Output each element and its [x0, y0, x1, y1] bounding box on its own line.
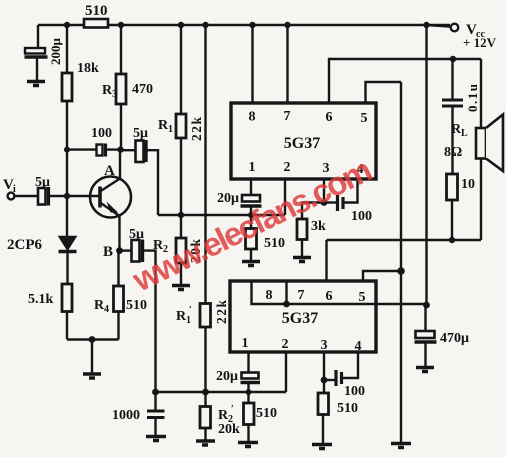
svg-text:A: A: [104, 163, 115, 179]
ground under R2': [196, 441, 215, 445]
ground under R2: [172, 286, 190, 290]
svg-text:470μ: 470μ: [440, 331, 469, 346]
svg-text:6: 6: [326, 289, 333, 304]
svg-text:7: 7: [298, 288, 305, 303]
svg-text:22k: 22k: [214, 298, 229, 324]
svg-text:510: 510: [126, 298, 147, 313]
svg-text:100: 100: [351, 209, 372, 224]
svg-text:5μ: 5μ: [129, 227, 144, 242]
svg-text:5G37: 5G37: [284, 135, 320, 152]
svg-text:1000: 1000: [112, 408, 140, 423]
capacitor 5u (emitter coupling): [120, 240, 156, 393]
svg-text:6: 6: [326, 110, 333, 125]
wire left drop to 200u: [37, 25, 39, 48]
svg-text:1: 1: [186, 315, 191, 326]
svg-text:20k: 20k: [218, 422, 240, 437]
ground under 510 U2: [238, 443, 258, 447]
resistor R1' 22k: [200, 25, 211, 392]
resistor 5.1k: [62, 284, 72, 340]
resistor R3 470: [116, 25, 126, 150]
svg-text:+ 12V: + 12V: [463, 35, 497, 50]
ground under 3k: [293, 258, 311, 262]
svg-text:′: ′: [189, 305, 192, 316]
svg-text:2: 2: [282, 337, 289, 352]
svg-text:2: 2: [284, 160, 291, 175]
svg-text:5μ: 5μ: [133, 126, 148, 141]
svg-text:′: ′: [231, 404, 234, 415]
svg-text:5.1k: 5.1k: [28, 292, 54, 307]
ground under 200u: [27, 82, 45, 86]
svg-text:510: 510: [85, 3, 108, 19]
svg-text:4: 4: [104, 304, 109, 315]
wire node X horizontal: [158, 214, 285, 216]
wire pin2 U1 to node X: [284, 179, 286, 215]
wire pin8 U1 to rail: [251, 25, 253, 103]
svg-text:3k: 3k: [311, 219, 326, 234]
svg-text:5μ: 5μ: [35, 175, 50, 190]
wire pin5 U2: [363, 271, 401, 281]
capacitor 20u (U1 pin1): [241, 179, 262, 229]
wire pin3 U1 junction: [323, 179, 325, 203]
resistor R2' 20k: [200, 392, 211, 440]
svg-text:8: 8: [266, 288, 273, 303]
svg-text:510: 510: [264, 236, 285, 251]
wire bias bus y392: [156, 391, 287, 393]
svg-text:3: 3: [321, 338, 328, 353]
resistor 3k: [297, 203, 324, 257]
transistor A: [90, 150, 131, 251]
resistor 510 (U2 pin3): [318, 380, 329, 443]
svg-text:5: 5: [359, 290, 366, 305]
resistor R1 22k: [176, 25, 186, 215]
ground under 1000: [146, 437, 166, 441]
wire emitter-bias bottom: [67, 340, 119, 373]
svg-text:18k: 18k: [77, 61, 99, 76]
wire 100-cap branch: [67, 148, 121, 150]
svg-text:8Ω: 8Ω: [444, 145, 462, 160]
resistor R4 510: [114, 251, 124, 340]
resistor R2 20k: [176, 215, 186, 284]
pin8 cell box U2: [252, 281, 287, 304]
svg-text:B: B: [103, 244, 113, 260]
resistor 510 (series in rail): [84, 19, 108, 28]
diode 2CP6: [59, 237, 77, 285]
svg-text:100: 100: [91, 126, 112, 141]
capacitor 1000: [147, 392, 165, 435]
ground under 510 pin3 U2: [312, 445, 332, 449]
capacitor 5u (input): [38, 187, 99, 206]
svg-text:470: 470: [132, 82, 153, 97]
wire pin8 net to Vcc column: [287, 303, 427, 305]
capacitor 200u: [25, 48, 48, 80]
svg-text:i: i: [13, 184, 16, 195]
svg-text:100: 100: [344, 384, 365, 399]
svg-text:L: L: [461, 128, 468, 139]
ground bottom-left: [83, 374, 101, 378]
svg-text:5: 5: [361, 111, 368, 126]
svg-text:10: 10: [461, 177, 475, 192]
svg-text:20μ: 20μ: [216, 369, 238, 384]
svg-text:510: 510: [337, 401, 358, 416]
resistor 18k: [62, 25, 72, 237]
resistor 510 (under 20u U2): [244, 392, 255, 441]
ground under x401 column: [391, 444, 411, 448]
svg-text:8: 8: [249, 110, 256, 125]
terminal Vcc: [427, 24, 459, 32]
IC U1 5G37: [231, 103, 376, 179]
svg-text:3: 3: [112, 89, 117, 100]
capacitor 0.1u + resistor 10 (zobel): [442, 59, 463, 240]
wire pin6 U1 to output node: [329, 59, 481, 103]
svg-text:7: 7: [284, 109, 291, 124]
wire pin3 U2 junction: [323, 352, 325, 380]
ground under 470u: [416, 368, 434, 372]
wire pin2 U2 to bias bus: [285, 352, 287, 392]
IC U2 5G37: [230, 281, 376, 352]
svg-text:1: 1: [249, 160, 256, 175]
svg-text:510: 510: [256, 406, 277, 421]
capacitor 100 (base-collector): [97, 144, 106, 157]
ground under 510: [242, 262, 260, 266]
wire top supply rail: [38, 24, 450, 26]
capacitor 20u (U2 pin1): [241, 352, 261, 392]
wire pin5 U1 to ground column: [366, 82, 402, 103]
svg-text:1: 1: [168, 124, 173, 135]
wire speaker-bottom to pin6 U2: [327, 240, 482, 281]
svg-text:2CP6: 2CP6: [7, 237, 42, 253]
resistor 510 (under 20u): [246, 229, 257, 261]
capacitor 100 (U1 pins 3-4): [324, 179, 358, 211]
wire Vcc column: [425, 25, 427, 305]
speaker RL 8ohm: [476, 59, 503, 240]
transistor A emitter arrow: [107, 202, 119, 213]
svg-text:22k: 22k: [189, 115, 204, 141]
capacitor 100 (U2 pins 3-4): [324, 352, 358, 386]
wire pin7 U1 to rail: [286, 25, 288, 103]
svg-text:5G37: 5G37: [282, 310, 318, 327]
wire ground column x401: [400, 82, 402, 442]
capacitor 470u: [415, 305, 437, 366]
capacitor 5u (collector coupling): [121, 140, 159, 215]
svg-text:200μ: 200μ: [48, 38, 63, 66]
svg-text:1: 1: [242, 336, 249, 351]
svg-text:20μ: 20μ: [217, 191, 239, 206]
svg-text:0.1u: 0.1u: [465, 83, 480, 112]
terminal Vi input: [8, 193, 38, 200]
svg-text:4: 4: [355, 339, 362, 354]
